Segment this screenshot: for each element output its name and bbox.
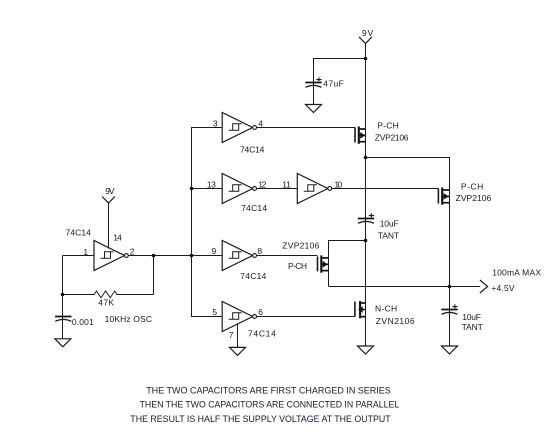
svg-text:ZVN2106: ZVN2106 — [376, 316, 415, 326]
svg-text:12: 12 — [258, 179, 266, 189]
svg-text:THEN THE TWO CAPACITORS ARE CO: THEN THE TWO CAPACITORS ARE CONNECTED IN… — [140, 400, 400, 411]
svg-text:9V: 9V — [105, 186, 115, 196]
svg-text:1: 1 — [83, 247, 88, 257]
svg-text:THE RESULT IS HALF THE SUPPLY: THE RESULT IS HALF THE SUPPLY VOLTAGE AT… — [130, 414, 391, 425]
svg-text:11: 11 — [282, 179, 291, 189]
svg-text:100mA MAX: 100mA MAX — [492, 268, 541, 278]
svg-text:74C14: 74C14 — [240, 271, 267, 281]
svg-text:74C14: 74C14 — [248, 329, 276, 339]
svg-text:ZVP2106: ZVP2106 — [375, 133, 409, 143]
svg-text:10uF: 10uF — [380, 218, 399, 228]
svg-text:74C14: 74C14 — [240, 145, 265, 155]
svg-text:10KHz OSC: 10KHz OSC — [105, 314, 153, 324]
svg-text:2: 2 — [130, 247, 135, 257]
svg-text:8: 8 — [257, 246, 262, 256]
svg-text:ZVP2106: ZVP2106 — [282, 241, 319, 251]
svg-text:P-CH: P-CH — [461, 182, 484, 192]
svg-text:N-CH: N-CH — [375, 303, 398, 313]
svg-text:74C14: 74C14 — [241, 203, 267, 213]
svg-text:ZVP2106: ZVP2106 — [456, 193, 492, 203]
svg-text:7: 7 — [229, 330, 234, 340]
svg-text:13: 13 — [207, 179, 216, 189]
svg-text:47K: 47K — [98, 298, 114, 308]
svg-text:3: 3 — [213, 118, 218, 128]
svg-text:9: 9 — [212, 246, 217, 256]
svg-text:4: 4 — [258, 118, 263, 128]
svg-text:+4.5V: +4.5V — [491, 283, 515, 293]
svg-text:10: 10 — [334, 179, 342, 189]
svg-text:P-CH: P-CH — [377, 120, 399, 130]
svg-text:14: 14 — [113, 233, 122, 243]
svg-text:P-CH: P-CH — [288, 261, 307, 271]
svg-text:TANT: TANT — [378, 230, 400, 240]
svg-text:5: 5 — [212, 307, 217, 317]
svg-text:10uF: 10uF — [462, 312, 481, 322]
svg-text:9V: 9V — [362, 28, 374, 38]
svg-text:THE TWO CAPACITORS ARE FIRST C: THE TWO CAPACITORS ARE FIRST CHARGED IN … — [146, 386, 391, 397]
svg-text:6: 6 — [258, 307, 263, 317]
svg-text:TANT: TANT — [462, 322, 484, 332]
svg-text:74C14: 74C14 — [66, 228, 92, 238]
svg-text:0.001: 0.001 — [72, 317, 94, 327]
svg-text:47uF: 47uF — [323, 79, 344, 89]
